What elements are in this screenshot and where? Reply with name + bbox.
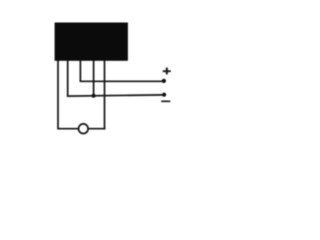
- wire (lamp right terminal to riser corner): [89, 128, 106, 130]
- wire (positive supply rail to battery plus terminal): [80, 80, 164, 82]
- wire (bottom-left corner to lamp left terminal): [57, 128, 78, 130]
- pin 3 (lead down to positive supply wire): [79, 61, 81, 82]
- wire (negative supply rail to battery minus terminal): [67, 95, 164, 96]
- pin 5 (rightmost lead, riser down to lamp wire): [104, 61, 106, 130]
- pin 2 (lead down to negative supply wire): [67, 61, 69, 97]
- pin 1 (leftmost lead, runs down to lamp wire): [57, 61, 59, 129]
- pin 4 (lead down to junction on negative rail): [93, 61, 95, 96]
- minus label (-): [161, 100, 170, 102]
- lamp L1 (circle component in bottom wire): [79, 124, 89, 134]
- positive terminal dot: [162, 79, 166, 83]
- plus label (+): [163, 68, 171, 75]
- junction dot (pin 4 joins negative rail): [92, 94, 96, 98]
- negative terminal dot: [162, 93, 166, 97]
- IC U1 (black module body): [55, 23, 128, 61]
